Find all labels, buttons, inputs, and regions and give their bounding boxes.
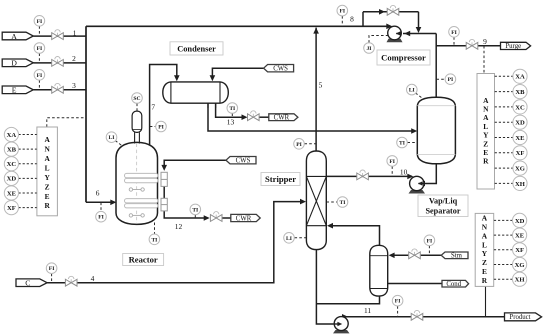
wire separator vapor riser <box>435 34 437 99</box>
svg-text:LI: LI <box>109 135 115 141</box>
svg-text:R: R <box>482 276 488 285</box>
instrument LI stripper <box>284 233 295 244</box>
svg-text:Condenser: Condenser <box>177 44 216 53</box>
arrow pump 11 discharge <box>342 314 348 320</box>
tag Purge <box>501 42 531 50</box>
svg-text:LI: LI <box>409 88 415 94</box>
valve product stream 11 <box>411 310 423 320</box>
wire reboiler bottoms <box>316 296 379 304</box>
dashed analyzer purge link XE <box>495 137 513 139</box>
instrument JI compressor <box>364 43 375 54</box>
wire stream 7 reactor to condenser <box>150 65 177 145</box>
svg-text:TI: TI <box>229 106 235 112</box>
svg-text:N: N <box>482 222 488 231</box>
svg-text:XE: XE <box>515 135 525 142</box>
svg-text:XA: XA <box>7 132 17 139</box>
dashed analyzer feed link XF <box>19 207 37 209</box>
analyzer purge component XH <box>513 176 527 190</box>
dashed analyzer product link XE <box>494 234 513 236</box>
arrow stream 7 into condenser <box>174 75 180 81</box>
dashed analyzer feed link XB <box>19 148 37 150</box>
svg-text:A: A <box>11 32 17 41</box>
svg-text:A: A <box>483 113 489 122</box>
wire compressor bypass riser <box>362 12 364 26</box>
svg-text:C: C <box>25 279 30 288</box>
svg-text:A: A <box>44 135 50 144</box>
svg-text:PI: PI <box>448 77 454 83</box>
svg-text:CWR: CWR <box>236 215 252 222</box>
arrow into compressor <box>404 31 410 37</box>
svg-text:FI: FI <box>37 19 43 25</box>
svg-text:E: E <box>482 267 487 276</box>
svg-text:XH: XH <box>515 277 526 284</box>
svg-text:L: L <box>482 240 487 249</box>
feed tag A <box>2 32 33 41</box>
tag Cond <box>442 280 469 288</box>
analyzer feed component XC <box>4 157 18 171</box>
svg-text:CWR: CWR <box>274 115 290 122</box>
svg-text:R: R <box>483 157 489 166</box>
instrument LI separator <box>407 84 418 95</box>
svg-text:FI: FI <box>389 159 395 165</box>
tag CWR reactor <box>231 214 260 222</box>
svg-text:FI: FI <box>37 46 43 52</box>
instrument FI purge <box>449 27 460 38</box>
arrow into separator pump <box>419 181 425 187</box>
dashed analyzer purge link XA <box>495 75 513 77</box>
separator pump suction into casing <box>418 183 423 185</box>
svg-text:TI: TI <box>399 141 405 147</box>
wire condenser outlet to separator <box>208 103 414 131</box>
wire feed D stream 2 <box>33 62 86 64</box>
separator pump circle <box>410 176 424 190</box>
valve stream 10 <box>357 170 369 180</box>
dashed FI-6 tap <box>100 203 102 212</box>
svg-text:3: 3 <box>72 81 76 90</box>
label Condenser <box>170 42 223 55</box>
arrow pump 10 discharge <box>407 174 413 180</box>
reactor coil nozzle upper <box>161 172 167 186</box>
analyzer feed component XB <box>4 142 18 156</box>
instrument LI reactor <box>106 132 117 143</box>
vap/liq separator vessel <box>417 97 455 164</box>
svg-text:10: 10 <box>400 167 408 176</box>
wire stream 11 product line <box>345 316 505 318</box>
svg-text:Z: Z <box>483 139 488 148</box>
arrow CWR 12 <box>204 215 210 221</box>
reactor agitator shaft centerline <box>136 144 138 224</box>
instrument FI stream 6 <box>96 211 107 222</box>
instrument FI stream 8 <box>337 5 348 16</box>
svg-text:Reactor: Reactor <box>129 254 158 264</box>
dashed LI reactor tap <box>115 141 123 147</box>
analyzer feed component XE <box>4 186 18 200</box>
dashed analyzer product link XG <box>494 264 513 266</box>
wire CWR 12 to tag <box>222 217 231 219</box>
svg-text:Separator: Separator <box>425 207 460 216</box>
analyzer product box <box>475 213 494 286</box>
svg-text:XH: XH <box>515 181 526 188</box>
svg-text:XG: XG <box>515 165 525 172</box>
tag CWS reactor <box>226 157 256 165</box>
wire recycle stream 8 <box>86 25 390 27</box>
product pump suction into casing <box>335 323 340 325</box>
wire feed header <box>85 26 87 202</box>
dashed FI-2 tap <box>38 53 40 62</box>
svg-text:Y: Y <box>44 173 50 182</box>
analyzer purge component XE <box>513 130 527 144</box>
svg-text:SC: SC <box>133 96 140 102</box>
wire stream 4 run <box>77 202 300 283</box>
valve reactor CWR 12 <box>210 212 222 222</box>
svg-text:XD: XD <box>515 218 525 225</box>
instrument PI separator <box>445 74 456 85</box>
dashed PI separator tap <box>436 78 444 80</box>
svg-text:Compressor: Compressor <box>381 52 426 62</box>
svg-text:XC: XC <box>515 104 525 111</box>
wire feed A stream 1 <box>33 35 86 37</box>
dashed analyzer feed link XC <box>19 163 37 165</box>
svg-text:N: N <box>44 145 50 154</box>
arrow CWS into condenser <box>210 75 216 81</box>
instrument TI stream 12 <box>190 204 201 215</box>
dashed analyzer feed link XD <box>19 177 37 179</box>
arrow steam into reboiler <box>389 253 395 259</box>
svg-text:FI: FI <box>37 73 43 79</box>
svg-text:Stripper: Stripper <box>265 174 296 184</box>
svg-text:PI: PI <box>158 125 164 131</box>
svg-text:XD: XD <box>515 120 525 127</box>
svg-text:1: 1 <box>73 28 77 37</box>
svg-text:XG: XG <box>515 262 525 269</box>
wire stream 5 stripper overhead <box>315 28 317 151</box>
instrument PI reactor <box>156 121 167 132</box>
dashed analyzer purge link XG <box>495 167 513 169</box>
reactor vessel <box>116 142 158 224</box>
arrow separator pump flow <box>418 181 423 185</box>
wire coil interconnect <box>163 186 165 198</box>
svg-text:FI: FI <box>49 266 55 272</box>
svg-text:FI: FI <box>427 238 433 244</box>
svg-text:E: E <box>483 148 488 157</box>
analyzer product component XD <box>513 213 527 227</box>
dashed LI stripper tap <box>295 237 307 239</box>
svg-text:12: 12 <box>175 222 183 231</box>
stripper packing section <box>306 176 326 225</box>
svg-text:XC: XC <box>7 161 17 168</box>
instrument TI stripper <box>337 197 348 208</box>
svg-text:PI: PI <box>296 142 302 148</box>
tag Product <box>505 313 542 321</box>
dashed SC tap <box>136 104 138 112</box>
analyzer product component XE <box>513 228 527 242</box>
dashed purge analyzer sample line <box>483 46 485 73</box>
tag CWS condenser <box>264 65 294 73</box>
svg-text:13: 13 <box>227 117 235 126</box>
dashed LI separator tap <box>416 93 422 98</box>
dashed analyzer purge link XH <box>495 182 513 184</box>
svg-text:Product: Product <box>509 314 530 321</box>
analyzer feed component XD <box>4 171 18 185</box>
dashed analyzer purge link XB <box>495 91 513 93</box>
svg-text:Vap/Liq: Vap/Liq <box>429 196 458 205</box>
label Stripper <box>261 173 300 186</box>
reactor agitator drive neck <box>135 132 140 143</box>
tag CWR condenser <box>269 114 298 122</box>
arrow bypass down <box>416 27 422 33</box>
wire product analyzer takeoff <box>485 286 487 316</box>
dashed FI-4 tap <box>51 274 53 283</box>
arrow product pump flow <box>337 322 342 326</box>
valve stream 4 <box>65 276 77 286</box>
svg-text:FI: FI <box>451 30 457 36</box>
svg-text:E: E <box>12 86 17 95</box>
svg-text:A: A <box>483 96 489 105</box>
svg-text:9: 9 <box>483 37 487 46</box>
svg-text:4: 4 <box>91 274 95 283</box>
wire stream 10 to stripper <box>326 175 412 177</box>
dashed PI-7 tap <box>150 126 156 128</box>
condenser vessel <box>163 82 229 103</box>
arrow bypass flow <box>379 9 385 15</box>
svg-text:5: 5 <box>319 81 323 90</box>
valve purge stream 9 <box>466 39 478 49</box>
dashed TI reactor tap <box>154 223 156 234</box>
wire condenser CWR stream 13 <box>216 103 242 117</box>
instrument FI stream 2 <box>34 43 45 54</box>
wire stripper bottoms <box>316 250 333 325</box>
dashed TI-13 tap <box>231 113 233 117</box>
label Vap/Liq Separator <box>418 195 468 217</box>
svg-text:XB: XB <box>7 146 17 153</box>
wire reactor CWS down <box>164 160 226 166</box>
instrument FI stream 11 <box>392 295 403 306</box>
arrow into separator <box>411 128 417 134</box>
valve stream 1 <box>52 30 64 40</box>
svg-text:TI: TI <box>151 237 157 243</box>
instrument FI stream 3 <box>34 70 45 81</box>
svg-text:Y: Y <box>483 131 489 140</box>
wire stream 6 into reactor <box>86 201 115 203</box>
svg-text:TI: TI <box>340 200 346 206</box>
dashed TI separator tap <box>407 142 417 144</box>
analyzer purge component XA <box>513 69 527 83</box>
dashed analyzer purge link XC <box>495 106 513 108</box>
svg-text:XA: XA <box>515 74 525 81</box>
compressor circle <box>388 26 402 40</box>
wire compressor bypass <box>363 11 419 13</box>
dashed analyzer feed link XE <box>19 192 37 194</box>
instrument FI stream 10 <box>387 156 398 167</box>
compressor base <box>387 39 403 43</box>
wire steam valve to reboiler <box>392 254 408 256</box>
wire purge valve to tag <box>478 45 501 47</box>
svg-text:Purge: Purge <box>505 43 521 50</box>
dashed analyzer feed link XA <box>19 134 37 136</box>
svg-text:JI: JI <box>367 46 372 52</box>
svg-text:XD: XD <box>7 176 17 183</box>
reboiler shell seams <box>370 256 388 289</box>
label Reactor <box>123 254 164 266</box>
dashed analyzer purge link XF <box>495 152 513 154</box>
dashed FI-11 tap <box>397 306 399 317</box>
wire condenser CWS inlet <box>212 68 263 78</box>
wire CWR 13 to tag <box>259 116 269 118</box>
dashed FI-8 tap <box>341 16 343 26</box>
reactor agitator impeller upper <box>129 188 144 191</box>
dashed PI stripper tap <box>304 143 316 145</box>
svg-text:6: 6 <box>96 188 100 197</box>
product pump base <box>333 330 350 333</box>
dashed TI stripper tap <box>326 201 337 203</box>
product pump circle <box>334 317 348 331</box>
svg-text:7: 7 <box>151 103 155 112</box>
arrow compressor flow <box>396 31 401 35</box>
svg-text:L: L <box>483 122 488 131</box>
condenser bottom nozzles <box>208 103 216 108</box>
valve condenser CWR 13 <box>248 111 260 121</box>
svg-text:XF: XF <box>7 205 16 212</box>
svg-text:Z: Z <box>482 258 487 267</box>
svg-text:Z: Z <box>45 182 50 191</box>
svg-text:A: A <box>44 154 50 163</box>
svg-text:A: A <box>482 214 488 223</box>
wire feed E stream 3 <box>33 89 86 91</box>
instrument FI stream 1 <box>34 15 45 26</box>
feed tag D <box>2 59 33 68</box>
analyzer feed box <box>37 127 58 216</box>
svg-text:D: D <box>11 59 17 68</box>
svg-text:FI: FI <box>395 299 401 305</box>
wire reactor CWR stream 12 <box>164 211 204 218</box>
svg-text:R: R <box>44 201 50 210</box>
wire condensate line <box>388 283 442 285</box>
reactor cooling coil upper <box>125 173 158 182</box>
svg-text:CWS: CWS <box>273 66 288 73</box>
svg-text:Y: Y <box>482 249 488 258</box>
svg-text:TI: TI <box>192 207 198 213</box>
svg-text:N: N <box>483 105 489 114</box>
arrow return into stripper <box>327 223 333 229</box>
svg-text:E: E <box>45 192 50 201</box>
compressor suction into casing <box>396 33 401 35</box>
arrow stream 4 into stripper <box>300 199 306 205</box>
analyzer purge box <box>477 74 495 190</box>
arrow into product pump <box>335 321 341 327</box>
instrument SC agitator <box>132 93 143 104</box>
valve steam <box>409 249 421 259</box>
svg-text:FI: FI <box>98 215 104 221</box>
separator pump base <box>409 190 426 194</box>
wire reboiler vapor return <box>331 226 380 246</box>
dashed FI-1 tap <box>38 26 40 36</box>
reactor agitator impeller lower <box>129 214 144 217</box>
reactor agitator motor capsule <box>132 111 142 132</box>
dashed FI-3 tap <box>38 80 40 90</box>
stripper column <box>306 151 326 250</box>
reactor cooling coil lower <box>125 199 158 208</box>
arrow stream 5 joins recycle <box>313 28 319 34</box>
analyzer product component XF <box>513 243 527 257</box>
svg-text:XF: XF <box>515 247 524 254</box>
wire separator liquid to pump <box>424 164 436 184</box>
dashed feed analyzer sample line <box>47 118 86 127</box>
stripper reboiler vessel <box>370 245 388 296</box>
instrument FI stream 4 <box>46 263 57 274</box>
arrow CWR 13 <box>242 114 248 120</box>
svg-text:Cond: Cond <box>446 281 461 288</box>
dashed analyzer product link XF <box>494 249 513 251</box>
analyzer product component XG <box>513 257 527 271</box>
feed tag C <box>16 279 47 288</box>
dashed analyzer purge link XD <box>495 121 513 123</box>
dashed FI-steam tap <box>428 246 430 256</box>
analyzer purge component XC <box>513 100 527 114</box>
valve compressor bypass <box>387 5 399 15</box>
separator shell seams <box>417 106 455 155</box>
svg-text:XB: XB <box>515 89 525 96</box>
instrument TI condenser <box>227 103 238 114</box>
analyzer purge component XB <box>513 85 527 99</box>
dashed analyzer product link XD <box>494 219 513 221</box>
wire purge stream 9 <box>436 45 466 47</box>
svg-text:XF: XF <box>516 150 525 157</box>
analyzer feed component XF <box>4 201 18 215</box>
arrow CWS into reactor coil <box>161 165 167 171</box>
wire steam line <box>421 254 442 256</box>
svg-text:L: L <box>45 163 50 172</box>
analyzer purge component XF <box>513 146 527 160</box>
svg-text:XE: XE <box>515 232 525 239</box>
instrument TI reactor <box>149 234 160 245</box>
dashed FI-10 tap <box>391 166 393 176</box>
analyzer purge component XD <box>513 115 527 129</box>
svg-text:8: 8 <box>350 14 354 23</box>
svg-text:CWS: CWS <box>236 158 251 165</box>
dashed FI-9 tap <box>453 37 455 46</box>
analyzer purge component XG <box>513 161 527 175</box>
svg-text:Stm: Stm <box>451 253 463 260</box>
label Compressor <box>377 50 430 65</box>
svg-text:2: 2 <box>72 54 76 63</box>
dashed TI-12 tap <box>194 215 196 218</box>
arrow compressor discharge <box>386 24 392 30</box>
reactor coil nozzle lower <box>161 198 167 211</box>
instrument PI stripper <box>294 139 305 150</box>
instrument FI steam <box>424 235 435 246</box>
wire compressor suction <box>403 33 436 35</box>
wire stream 4 C feed <box>47 282 66 284</box>
svg-text:FI: FI <box>340 9 346 15</box>
wire bypass downleg <box>418 12 420 29</box>
valve stream 2 <box>52 57 64 67</box>
feed tag E <box>2 86 33 95</box>
svg-text:XE: XE <box>7 190 17 197</box>
dashed analyzer product link XH <box>494 278 513 280</box>
analyzer product component XH <box>513 272 527 286</box>
dashed JI tap <box>369 36 388 43</box>
valve stream 3 <box>52 83 64 93</box>
tag Stm <box>441 252 468 260</box>
instrument TI separator <box>397 137 408 148</box>
arrow stream 6 into reactor <box>110 200 116 206</box>
analyzer feed component XA <box>4 127 18 141</box>
svg-text:A: A <box>482 231 488 240</box>
svg-text:LI: LI <box>286 236 292 242</box>
svg-text:11: 11 <box>364 306 371 315</box>
